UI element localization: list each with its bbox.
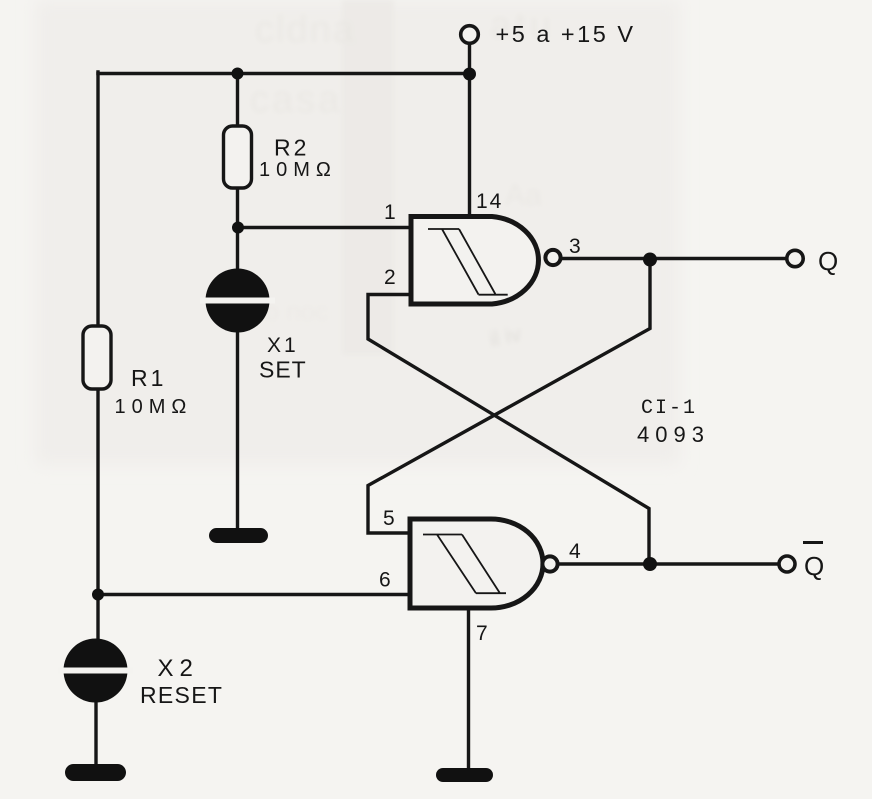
wire X1 to ground xyxy=(236,332,239,530)
ground (below X2) xyxy=(65,764,126,781)
svg-text:3: 3 xyxy=(569,235,581,258)
junction node R1/X2/pin6 xyxy=(92,589,104,601)
svg-text:5: 5 xyxy=(383,507,395,530)
resistor R2 xyxy=(224,126,252,188)
svg-text:R2: R2 xyxy=(274,135,309,161)
svg-text:+5 a +15 V: +5 a +15 V xyxy=(496,21,636,47)
wire rail to R2 xyxy=(236,72,239,127)
wire R1 to RESET junction xyxy=(96,388,99,640)
svg-text:X2: X2 xyxy=(158,655,199,682)
svg-text:SET: SET xyxy=(259,357,307,383)
svg-text:7: 7 xyxy=(476,622,488,645)
touch sensor X1 xyxy=(200,269,275,333)
junction node Q-bar xyxy=(643,557,657,571)
junction node on rail at supply xyxy=(463,68,476,81)
svg-text:Q: Q xyxy=(818,246,838,276)
wire pin 2 cross-couple to gate2 output node xyxy=(368,295,649,565)
wire pin 7 to ground xyxy=(467,606,470,770)
svg-text:cldna: cldna xyxy=(255,9,356,51)
svg-text:Q: Q xyxy=(804,551,824,581)
svg-text:6: 6 xyxy=(379,569,391,592)
svg-text:RESET: RESET xyxy=(140,682,223,708)
wire supply terminal to pin 14 xyxy=(468,44,471,217)
svg-text:4093: 4093 xyxy=(637,422,710,447)
wire gate1 output to Q terminal xyxy=(561,257,786,260)
wire top supply rail xyxy=(98,72,470,75)
wire gate1 output node cross-couple to pin 5 xyxy=(368,260,650,534)
svg-text:X1: X1 xyxy=(267,334,299,357)
svg-text:10MΩ: 10MΩ xyxy=(259,159,337,181)
svg-text:14: 14 xyxy=(476,190,503,213)
svg-text:1: 1 xyxy=(384,201,396,224)
NAND gate U1b (CI-1 4093) xyxy=(410,519,558,608)
schmitt symbol U1b xyxy=(423,535,506,594)
output bubble U1a xyxy=(545,250,560,265)
terminal Q-bar xyxy=(779,556,795,572)
svg-text:4: 4 xyxy=(569,540,581,563)
schmitt symbol U1a xyxy=(428,229,508,295)
terminal Q xyxy=(787,250,803,266)
junction node R2/X1/pin1 xyxy=(232,222,244,234)
svg-text:casa: casa xyxy=(250,79,342,121)
svg-text:2: 2 xyxy=(384,266,396,289)
NAND gate U1a (CI-1 4093) xyxy=(411,217,561,305)
wire node to pin 1 xyxy=(238,226,411,229)
junction node Q xyxy=(643,253,657,267)
svg-text:CI-1: CI-1 xyxy=(641,397,697,420)
wire X2 to ground xyxy=(94,702,97,766)
svg-text:Aa: Aa xyxy=(505,179,542,212)
output bubble U1b xyxy=(542,556,557,571)
svg-text:R1: R1 xyxy=(131,365,166,391)
wire left branch from rail to R1 xyxy=(96,72,99,327)
svg-text:10MΩ: 10MΩ xyxy=(115,396,193,418)
touch sensor X2 xyxy=(58,639,133,703)
resistor R1 xyxy=(83,326,111,389)
wire reset node to pin 6 xyxy=(98,593,410,596)
supply terminal xyxy=(461,26,479,44)
ground (below X1) xyxy=(209,528,268,543)
junction node on rail at R2 xyxy=(232,68,244,80)
ground (pin 7) xyxy=(436,768,493,782)
wires and components xyxy=(96,44,786,770)
wire gate2 output to Q-bar terminal xyxy=(558,562,778,565)
overline of Q-bar xyxy=(803,541,823,544)
wire R2 to node pin1 xyxy=(236,187,239,270)
